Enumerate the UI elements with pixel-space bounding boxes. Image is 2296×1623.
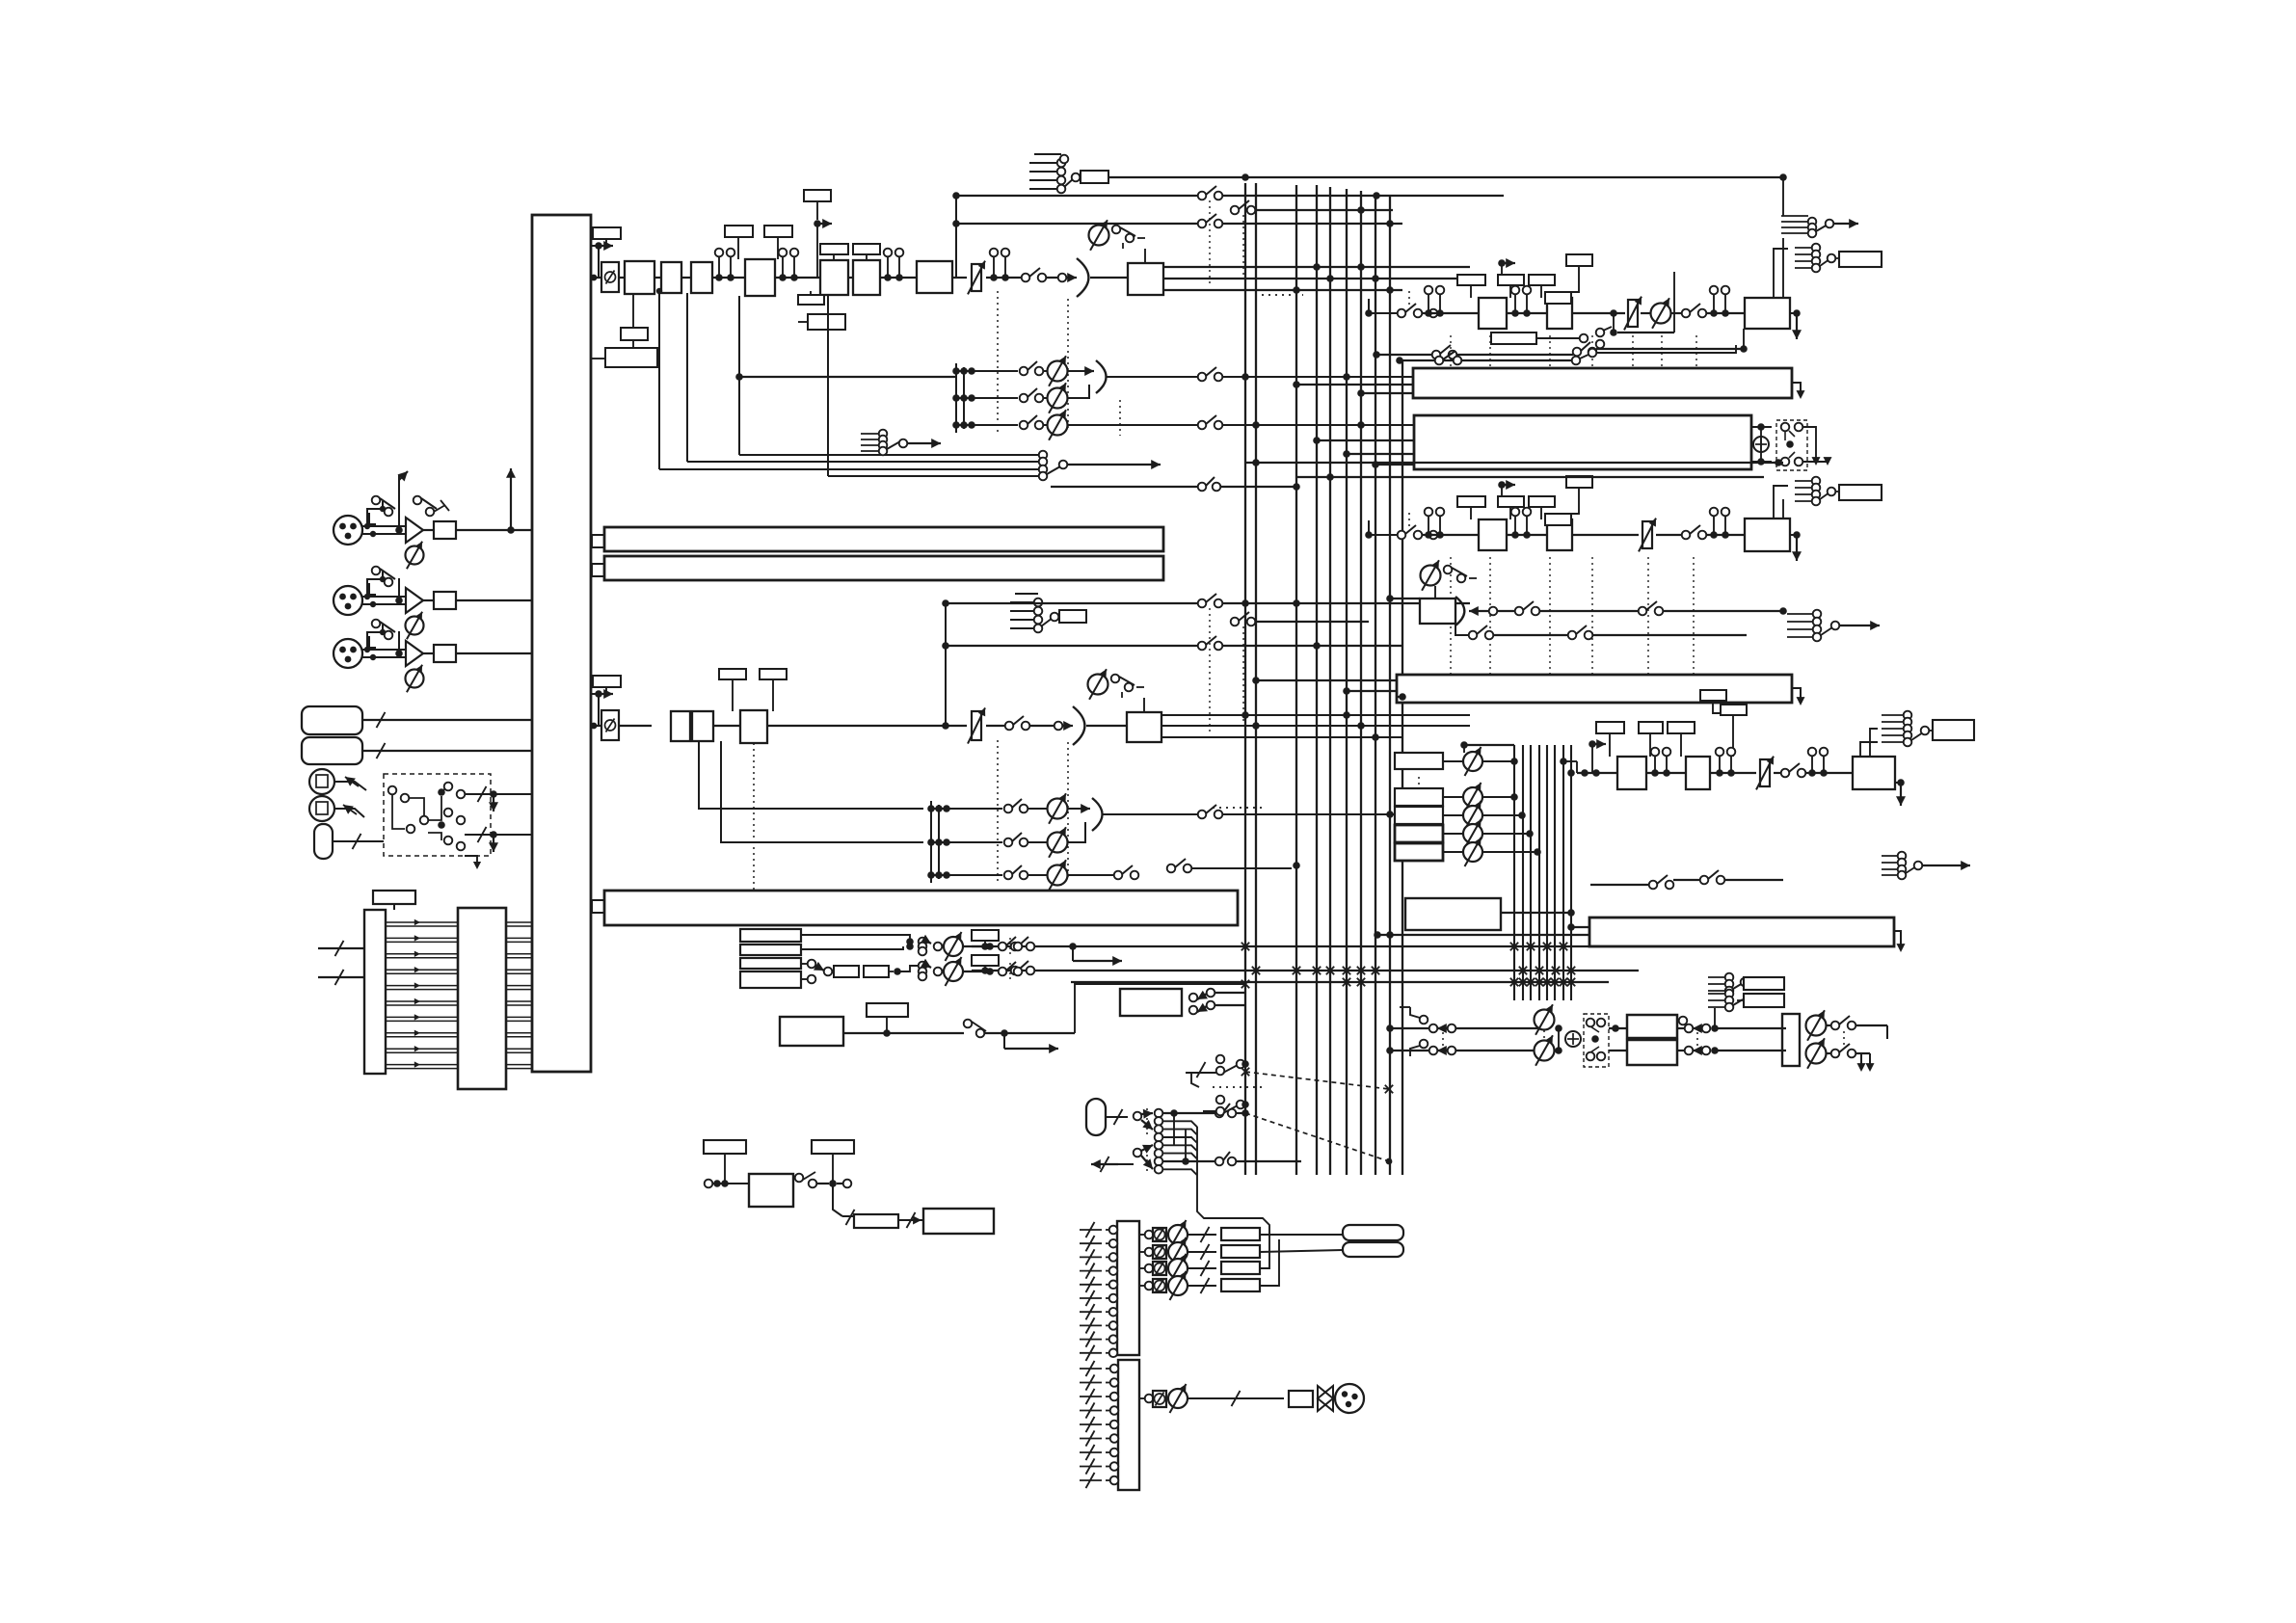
monitor select source boxes column	[1395, 753, 1443, 769]
talkback input contact	[705, 1180, 713, 1188]
mic input XLR 1	[334, 516, 362, 545]
fx on switch	[1774, 772, 1781, 774]
bus bottom bent rows into trunk	[1162, 1121, 1197, 1127]
fx feed wires from output box top	[1870, 729, 1878, 757]
group master 1 monitor fan with arrow	[1781, 215, 1808, 217]
mic input XLR 2	[334, 586, 362, 615]
master 1 mute row	[1373, 351, 1380, 359]
fx meter arrow	[1589, 740, 1596, 748]
bus bottom feed lower	[1134, 1149, 1142, 1157]
tape input lines with slashes	[318, 947, 364, 949]
mic 1 mode select vertical	[398, 475, 400, 530]
stereo bus bar L	[592, 535, 604, 547]
monitor vertical top feeds	[1464, 744, 1514, 746]
main insert bar input stubs	[1317, 439, 1414, 441]
control room out switches	[1827, 1024, 1831, 1026]
mono bar input stubs	[1256, 679, 1397, 681]
mono out bar arrow	[1792, 688, 1801, 700]
talkback dist box	[1120, 989, 1182, 1016]
fx stacked label boxes top right	[1700, 690, 1726, 701]
master 1 solo label box	[1491, 333, 1536, 344]
bus bottom row 1 wire to bus	[1162, 1112, 1215, 1114]
group master 1 rec label box	[1839, 252, 1882, 267]
phones sum circle	[1565, 1031, 1581, 1047]
ch1 insert box B	[681, 277, 691, 279]
fx output box	[1853, 757, 1895, 789]
insert patch block	[458, 908, 506, 1089]
mono master sum box	[1420, 599, 1455, 624]
ch1 direct-out box with arrow	[804, 190, 831, 201]
master insert box	[1479, 298, 1507, 329]
ch1 EQ box	[820, 260, 848, 295]
master source select switch	[1398, 531, 1406, 540]
ch1 below-chain wide box	[632, 340, 634, 348]
ch1 upper routing wire A	[952, 192, 960, 200]
aux send out block 2	[1118, 1360, 1139, 1490]
master 1 select dotted	[1408, 291, 1410, 306]
ch1 pan box	[1128, 263, 1163, 295]
talkback mic box	[749, 1174, 793, 1207]
ch1 insert send/return pins	[712, 277, 745, 279]
monitor bus cross wire 2	[1071, 981, 1609, 983]
playback box4 stub	[801, 978, 808, 980]
ch2 upper routing wire B	[942, 642, 949, 650]
stereo bus link wires into master 2	[1245, 462, 1783, 464]
ch2 48V fan	[1010, 601, 1035, 603]
ch1 aux send row 2	[952, 394, 960, 402]
ch2 on switch	[1005, 722, 1014, 731]
group out lower pair loop up	[1260, 1249, 1269, 1268]
monitor source box 1	[1395, 788, 1443, 806]
osc dest label box 1	[972, 930, 999, 941]
bus lower switch slash line	[1186, 1072, 1216, 1074]
osc route wire 2	[972, 970, 1245, 971]
ch2 phantom stub	[1015, 593, 1038, 595]
patch rows between connector strip and insert block	[386, 921, 458, 923]
ch1 upper routing switch second bank	[1231, 206, 1240, 215]
monitor fan lower right with arrow	[1882, 855, 1898, 857]
phones monitor fan upper	[1708, 976, 1725, 978]
group master 1 on switch	[1671, 312, 1682, 314]
group out rows	[1139, 1234, 1145, 1236]
monitor column dotted gap	[1418, 777, 1420, 796]
master GEQ label tall box	[1566, 254, 1592, 266]
group out block 1	[1117, 1221, 1139, 1355]
master wire to process boxes	[1422, 312, 1479, 314]
master 1 solo switches	[1596, 329, 1605, 337]
ch1 pan summing crescent	[1077, 258, 1088, 297]
phones rail L	[1390, 1027, 1538, 1029]
channel meter pickoff arrow	[591, 693, 599, 695]
talkback down arrow	[1003, 1033, 1005, 1049]
slate input arrow	[913, 1216, 921, 1225]
monitor select vertical lines	[1513, 745, 1515, 1000]
ch1 aux send row 3	[952, 421, 960, 429]
aux pick row contacts	[739, 454, 1039, 456]
master GEQ label tall box	[1566, 476, 1592, 488]
aux return wire to bus	[1051, 486, 1198, 488]
ch1 aux vertical feed lines	[955, 363, 957, 433]
ch1 on switch	[1022, 274, 1030, 282]
master mid pins	[1507, 534, 1547, 536]
bus bottom left arrow	[1091, 1163, 1118, 1165]
talkback to slate wire	[833, 1184, 842, 1216]
ch1 comp label box	[725, 226, 753, 237]
footswitch jack	[314, 824, 333, 859]
mono master pot and switch	[1421, 566, 1441, 586]
bus bottom row contacts	[1155, 1109, 1163, 1118]
master meter pickoff arrow	[1498, 259, 1506, 267]
group master 1 level pot	[1641, 312, 1651, 314]
pad switch pair above mic 1	[369, 513, 376, 524]
osc route switch 2	[1011, 967, 1020, 975]
connector strip label box	[373, 891, 415, 904]
input patch bay main bar	[532, 215, 591, 1072]
phones out contacts upper	[1679, 1017, 1688, 1025]
ch1 gate label box	[764, 226, 792, 237]
phones crossfade dashed box	[1584, 1014, 1609, 1067]
aux bar mute wire	[1400, 359, 1571, 361]
ch1 pan out top	[1163, 266, 1470, 268]
bus lower switch set 1	[1216, 1055, 1225, 1064]
pad switch above mic 2	[369, 583, 376, 595]
group master 2 fader	[1572, 534, 1639, 536]
osc dest label box 2	[972, 955, 999, 966]
playback select switch lower	[999, 968, 1007, 976]
ch1 below-chain box C	[808, 314, 845, 330]
ch2 pan out mid	[1161, 725, 1470, 727]
2TR A feed line	[334, 782, 366, 790]
mono out bar	[1397, 675, 1792, 703]
ch1 pre/post drop wires to aux	[658, 293, 660, 469]
ch2 pan box	[1127, 712, 1161, 742]
phones out contacts lower	[1677, 1050, 1685, 1051]
bus group separator dots middle	[1213, 807, 1263, 809]
fx return box A	[1617, 757, 1646, 789]
group master 1 output box	[1745, 298, 1790, 329]
ch2 drop wires	[699, 741, 923, 809]
talkback on switch	[964, 1020, 973, 1028]
ch2 pan out bottom	[1161, 736, 1402, 738]
osc branch arrow	[1069, 943, 1077, 950]
mic channel 1 direct-out branch arrow	[507, 526, 515, 534]
ch1 aux dotted links	[997, 291, 999, 436]
2TR to bar line B with slash and ground arrow	[465, 834, 532, 836]
ch1 fader	[952, 277, 967, 279]
ch2 aux vertical feed lines	[930, 801, 932, 883]
group out block 1 input pins	[1080, 1229, 1102, 1231]
ch1 48V fan	[1029, 162, 1058, 164]
group master 2 on switch	[1656, 534, 1682, 536]
control room pots	[1806, 1016, 1827, 1036]
ch1 pan out mid	[1163, 278, 1470, 279]
ch2 EQ box	[713, 725, 740, 727]
2TR RCA connector B	[309, 796, 334, 821]
control room out box	[1782, 1014, 1800, 1066]
pad switch above mic 3	[369, 636, 376, 648]
talkback wire	[843, 1032, 964, 1034]
fx return chain wire	[1577, 772, 1617, 774]
monitor source box 4	[1395, 843, 1443, 861]
osc route switch 1	[1011, 943, 1020, 951]
ch1 phantom stub	[1034, 153, 1061, 155]
bus bottom vertical link A	[1173, 1113, 1175, 1145]
ch2 box B	[692, 711, 713, 741]
ch1 upper routing wire B	[952, 220, 960, 227]
2TR to bar line A with slash and ground arrow	[465, 793, 532, 795]
ch1 48V label box	[1081, 171, 1108, 183]
playback selector box stack	[740, 929, 801, 942]
monitor fan mid with arrow	[1787, 613, 1813, 615]
bus lower switch set 2	[1216, 1096, 1225, 1104]
ch2 main wire to fader	[767, 725, 967, 727]
aux out chain	[1139, 1397, 1145, 1399]
monitor chain feed dots	[1567, 769, 1575, 777]
ch2 aux send row 3	[927, 871, 935, 879]
phones rail R	[1390, 1050, 1538, 1051]
group meter bar arrow	[1894, 931, 1901, 946]
master meter pickoff arrow	[1498, 481, 1506, 489]
stereo line input jack pair 1	[302, 706, 362, 734]
ch2 pan out top	[1161, 714, 1470, 716]
fx out pins	[1805, 772, 1853, 774]
group master 1 rec fan	[1795, 247, 1812, 249]
playback level pot lower	[944, 962, 963, 981]
slate wire slash	[898, 1219, 923, 1221]
bus dashed diagonal 1	[1245, 1072, 1389, 1089]
insert block down arrows	[1802, 427, 1816, 458]
group master 2 output box	[1745, 519, 1790, 551]
ch1 routing dotted links	[1209, 200, 1211, 285]
connector strip bar	[364, 910, 386, 1074]
mono master input arrow	[1469, 610, 1489, 612]
master wire to process boxes	[1422, 534, 1479, 536]
ch2 aux dotted links	[997, 740, 999, 882]
phones monitor label box 1	[1744, 977, 1784, 990]
group master 2 out pins	[1706, 534, 1745, 536]
playback level pot upper	[944, 937, 963, 956]
monitor source box 3	[1395, 825, 1443, 842]
master input left arrow	[1424, 531, 1431, 539]
aux out amp box	[1289, 1391, 1313, 1407]
phones amp box lower	[1627, 1040, 1677, 1065]
ch1 pan pot and switch	[1089, 226, 1109, 246]
stereo bus link wires into master 1	[1108, 176, 1783, 178]
playback box3 wire to cluster lower	[919, 962, 927, 971]
ch1 dynamics box	[917, 261, 952, 293]
phones monitor label box 2	[1744, 994, 1784, 1007]
mono bus feed from left	[1390, 598, 1420, 599]
ch2 pan pot and switch	[1088, 675, 1108, 695]
master input left arrow	[1424, 309, 1431, 317]
master EQ box	[1547, 298, 1572, 329]
oscillator label box 1	[704, 1140, 746, 1154]
bus group separator dots lower	[1213, 1086, 1263, 1088]
playback box3 switch and trim boxes	[801, 963, 808, 965]
ch2 routing dotted links	[1209, 608, 1211, 732]
channel strip label box	[593, 676, 621, 687]
slate level box	[854, 1214, 898, 1228]
meter drive feed line	[1501, 912, 1571, 914]
master comp label box pair	[1457, 275, 1485, 285]
master chain dotted control drops	[1450, 335, 1452, 367]
aux pick selector arm and arrow	[1047, 466, 1060, 474]
aux bar input stubs	[1296, 384, 1413, 386]
group master 1 fader	[1572, 312, 1625, 314]
ch2 label box B	[760, 669, 787, 679]
ch2 upper routing switch second bank	[1231, 618, 1240, 626]
group master 2 rec label box	[1839, 485, 1882, 500]
ch2 EQ dotted drop	[753, 743, 755, 891]
2TR B feed line	[334, 809, 364, 817]
ch2 aux send row 2	[927, 838, 935, 846]
bus bottom vertical link B	[1185, 1130, 1187, 1161]
talkback source box	[780, 1017, 843, 1046]
ch1 aux source fan and arrow	[861, 433, 879, 435]
fx return fader	[1760, 759, 1770, 786]
2TR RCA connector A	[309, 769, 334, 794]
phones monitor fan lower	[1708, 993, 1725, 995]
master insert box	[1479, 519, 1507, 550]
bus bottom feed upper	[1106, 1116, 1128, 1118]
footswitch line	[333, 840, 384, 842]
mono master switches row 1	[1497, 610, 1516, 612]
aux out bar right arrow	[1792, 383, 1801, 393]
phones level pot R	[1535, 1041, 1555, 1061]
ch2 label box A	[719, 669, 746, 679]
stereo line input jack pair 2	[302, 737, 362, 764]
footswitch down arrow	[465, 856, 477, 865]
fx rec fan and label box	[1882, 714, 1904, 716]
group master 1 ground arrow	[1793, 309, 1801, 317]
group master 2 feed wires up	[1782, 499, 1784, 519]
bus dashed diagonal 2	[1245, 1113, 1389, 1161]
ch1 post fader pins	[986, 277, 1022, 279]
ch1 aux send row 1	[952, 367, 960, 375]
control room ground arrows	[1886, 1025, 1888, 1039]
playback box1 wire to cluster	[801, 935, 910, 942]
ch2 box A	[619, 725, 652, 727]
ch1 post EQ pins	[848, 277, 853, 279]
fx chain pins	[1646, 772, 1686, 774]
bus bottom trunk	[1197, 1127, 1269, 1249]
talkback riser to distribution	[1075, 984, 1245, 1033]
talkback output switch	[795, 1174, 804, 1183]
ch1 comp box	[745, 259, 775, 296]
mix bus vertical lines	[1244, 183, 1246, 1175]
ch2 upper routing wire A	[942, 599, 949, 607]
ch1 EQ label box	[820, 244, 848, 254]
mono master switches row 2	[1455, 624, 1469, 635]
ch2 48V label box	[1059, 610, 1086, 623]
channel meter pickoff arrow	[591, 245, 599, 247]
channel strip label box	[593, 227, 621, 239]
ch1 post-comp pins	[775, 277, 820, 279]
group meter bar input	[1571, 926, 1589, 928]
phones input arrows	[1429, 1024, 1438, 1033]
group master 1 out pins	[1706, 312, 1745, 314]
channel phase switch	[601, 710, 619, 740]
group master 2 ground arrow	[1793, 531, 1801, 539]
main insert bar	[1414, 415, 1751, 469]
playback box2 wire to cluster	[801, 946, 903, 949]
2TR routing dashed box	[384, 774, 491, 856]
meter drive box	[1405, 898, 1501, 930]
osc route wire 1	[972, 945, 1600, 947]
ch1 below-chain box B	[810, 291, 812, 295]
ch2 aux send row 1	[927, 805, 935, 812]
phones level pot L	[1535, 1010, 1555, 1030]
ch2 pan feed	[1029, 725, 1062, 727]
ch1 filter label box	[853, 244, 880, 254]
fx return label boxes	[1596, 722, 1624, 733]
bus group separator dots top	[1262, 294, 1303, 296]
2TR routing switch web inside dashed box	[388, 786, 397, 795]
ch1 insert box A	[654, 277, 661, 279]
ch1 HA gain box	[619, 277, 625, 279]
slate output box	[923, 1209, 994, 1234]
aux out bar (top)	[1413, 368, 1792, 398]
fx return box B	[1686, 757, 1710, 789]
bus bottom stadium connector	[1086, 1099, 1106, 1135]
group bus bar	[592, 900, 604, 913]
monitor source box 2	[1395, 807, 1443, 824]
group out upper pair to recording outs	[1260, 1234, 1343, 1236]
master source select switch	[1398, 309, 1406, 318]
aux out XLR	[1335, 1384, 1364, 1413]
master mid pins	[1507, 312, 1547, 314]
insert send sum circle	[1751, 426, 1772, 428]
ch1 pan out bottom	[1163, 289, 1402, 291]
fx output down arrow	[1897, 779, 1905, 786]
ch1 pan feed	[1046, 277, 1066, 279]
playback select switch upper	[999, 943, 1007, 951]
group meter bar	[1589, 918, 1894, 946]
phones fan feed wires	[1714, 1008, 1716, 1028]
master EQ box	[1547, 519, 1572, 550]
fx post pins	[1710, 772, 1756, 774]
phones amp box upper	[1612, 1024, 1619, 1032]
insert patch dashed box	[1776, 420, 1807, 470]
aux master switch row mid	[1590, 884, 1649, 886]
master comp label box pair	[1457, 496, 1485, 507]
aux out block input pins	[1080, 1368, 1102, 1370]
master chain 2 dotted control drops	[1450, 557, 1452, 675]
ch1 filter box	[853, 260, 880, 295]
phones source select switch	[1410, 1007, 1420, 1018]
mic input XLR 3	[334, 639, 362, 668]
patch rows between insert block and main bar	[506, 921, 532, 923]
talkback label box	[867, 1003, 908, 1017]
oscillator label box 2	[812, 1140, 854, 1154]
ch2 post fader pins	[986, 725, 1006, 727]
ch1 below-chain small box A	[632, 295, 634, 328]
bus bottom row 7 wire to bus	[1162, 1160, 1215, 1162]
talkback dist switches right	[1189, 994, 1198, 1002]
group master 2 rec fan	[1795, 480, 1812, 482]
aux out amp triangles	[1318, 1386, 1333, 1411]
mono feed wire into group meter bar	[1377, 934, 1589, 936]
master 2 select dotted	[1408, 513, 1410, 528]
channel phase switch	[601, 262, 619, 292]
group master 1 feed wires up	[1782, 238, 1784, 298]
stereo bus bar R	[592, 564, 604, 576]
